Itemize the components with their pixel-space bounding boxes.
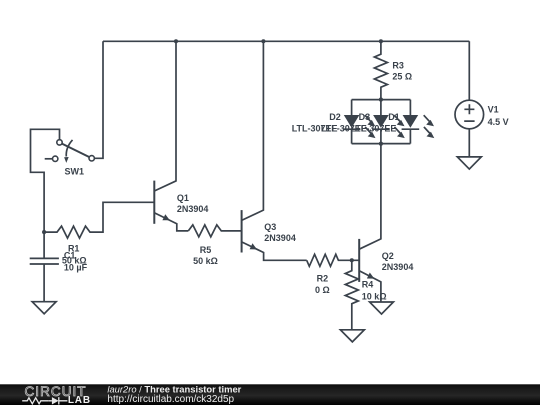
svg-text:LAB: LAB bbox=[68, 395, 91, 405]
svg-text:C1: C1 bbox=[64, 250, 76, 260]
svg-text:D1: D1 bbox=[388, 112, 400, 122]
svg-text:D3: D3 bbox=[359, 112, 371, 122]
svg-text:2N3904: 2N3904 bbox=[382, 262, 414, 272]
svg-text:R4: R4 bbox=[362, 279, 374, 289]
svg-text:0 Ω: 0 Ω bbox=[315, 285, 330, 295]
svg-text:R2: R2 bbox=[317, 274, 329, 284]
svg-text:Q2: Q2 bbox=[382, 251, 394, 261]
svg-text:R5: R5 bbox=[200, 245, 212, 255]
svg-text:10 µF: 10 µF bbox=[64, 262, 88, 272]
svg-text:laur2ro / Three transistor tim: laur2ro / Three transistor timer bbox=[107, 383, 241, 394]
svg-text:2N3904: 2N3904 bbox=[264, 233, 296, 243]
svg-text:Q3: Q3 bbox=[264, 222, 276, 232]
svg-text:D2: D2 bbox=[329, 112, 341, 122]
svg-text:2N3904: 2N3904 bbox=[177, 204, 209, 214]
svg-text:R3: R3 bbox=[392, 60, 404, 70]
svg-text:10 kΩ: 10 kΩ bbox=[362, 292, 387, 302]
svg-text:V1: V1 bbox=[488, 105, 499, 115]
svg-text:Q1: Q1 bbox=[177, 193, 189, 203]
svg-text:4.5 V: 4.5 V bbox=[488, 117, 509, 127]
svg-text:http://circuitlab.com/ck32d5p: http://circuitlab.com/ck32d5p bbox=[107, 394, 234, 405]
svg-text:25 Ω: 25 Ω bbox=[392, 72, 412, 82]
svg-text:50 kΩ: 50 kΩ bbox=[193, 256, 218, 266]
svg-text:SW1: SW1 bbox=[65, 167, 85, 177]
